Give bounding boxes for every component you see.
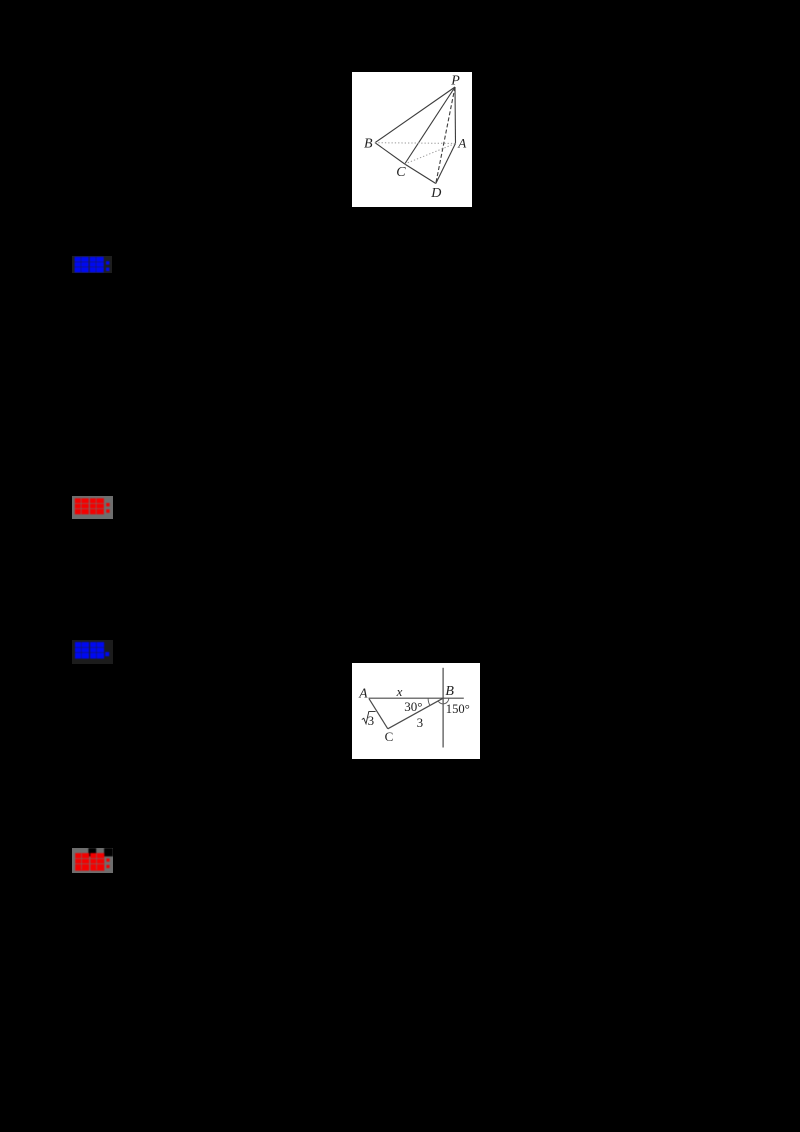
svg-text:30°: 30° (404, 699, 422, 714)
svg-text:C: C (385, 729, 394, 744)
label: blue 解析 tag 2 (72, 640, 113, 665)
figure panel 1: tetrahedron P-ABCD (352, 72, 472, 207)
wire P-D dashed (436, 87, 455, 184)
label sqrt3 (362, 712, 376, 728)
wire P-C (405, 87, 455, 164)
wire B-A dotted (375, 142, 456, 145)
svg-text:A: A (457, 135, 466, 150)
angle arc 150 deg at B (438, 698, 449, 704)
wire P-A (454, 87, 457, 143)
wire A-D (436, 143, 456, 183)
label: blue 解析 tag 1 (72, 256, 113, 273)
wire A-C (369, 699, 388, 729)
angle arc 30 deg at B (428, 698, 430, 705)
figure panel 2: triangle ABC with 30 and 150 degrees (352, 663, 480, 759)
wire C-A dotted (405, 143, 456, 164)
label: red 答案 tag 1 (gray highlight) (72, 496, 113, 520)
wire horizontal line A-B extended (369, 697, 464, 699)
svg-text:B: B (364, 137, 373, 152)
wire C-D (405, 164, 436, 184)
svg-text:150°: 150° (446, 702, 470, 716)
svg-text:A: A (358, 686, 368, 701)
svg-text:3: 3 (368, 713, 375, 728)
svg-text:P: P (450, 73, 460, 88)
wire P-B (375, 87, 455, 143)
svg-text:B: B (445, 684, 454, 699)
svg-text:3: 3 (417, 715, 424, 730)
wire C-B (388, 698, 443, 729)
label: red 答案 tag 2 (gray highlight) (72, 848, 113, 873)
wire vertical line through B (442, 668, 444, 748)
wire B-C (375, 143, 405, 164)
svg-text:x: x (396, 684, 403, 699)
svg-text:D: D (430, 186, 441, 201)
svg-text:C: C (396, 165, 406, 180)
